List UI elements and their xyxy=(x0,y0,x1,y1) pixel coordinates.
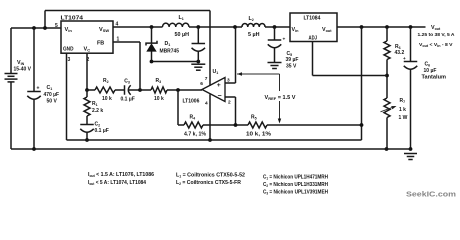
svg-text:+: + xyxy=(403,56,406,61)
ground below C4 xyxy=(191,63,205,65)
diode D1 MBR745 schottky xyxy=(146,41,157,46)
node D1 anode rail junction xyxy=(150,60,154,64)
svg-text:R3: R3 xyxy=(156,78,162,84)
svg-text:L1 = Coiltronics CTX50-5-52: L1 = Coiltronics CTX50-5-52 xyxy=(176,173,245,179)
svg-text:L2: L2 xyxy=(249,16,254,22)
wire top rail horizontal xyxy=(45,10,210,12)
svg-text:C1 = Nichicon UPL1H471MRH: C1 = Nichicon UPL1H471MRH xyxy=(263,175,328,181)
svg-text:Iout < 1.5 A: LT1076, LT1086: Iout < 1.5 A: LT1076, LT1086 xyxy=(88,172,154,178)
svg-text:VSW: VSW xyxy=(99,27,109,33)
wire R6 top lead xyxy=(386,27,388,41)
svg-text:10 k: 10 k xyxy=(102,96,112,102)
svg-text:SeekIC.com: SeekIC.com xyxy=(406,190,456,199)
svg-text:C2 = Nichicon UPL1H331MRH: C2 = Nichicon UPL1H331MRH xyxy=(263,182,328,188)
svg-text:15-40 V: 15-40 V xyxy=(14,67,32,73)
node C1 bottom junction xyxy=(32,147,36,151)
arrowhead R7 wiper xyxy=(391,106,396,109)
wire L2 to LT1084 Vin xyxy=(265,26,290,28)
wire R3 to op-amp output xyxy=(167,89,202,91)
wire gnd rail corner xyxy=(67,139,362,141)
svg-text:Vout < Vin - 8 V: Vout < Vin - 8 V xyxy=(419,42,453,48)
wire VSW to L1 xyxy=(113,26,163,28)
node C6 Vout junction xyxy=(409,25,413,29)
svg-text:L2 = Coiltronics CTX5-5-FR: L2 = Coiltronics CTX5-5-FR xyxy=(176,180,241,186)
svg-text:1.25 to 38 V, 5 A: 1.25 to 38 V, 5 A xyxy=(418,32,455,38)
wire R2 to C3 xyxy=(115,89,125,91)
capacitor C4 filter xyxy=(192,43,206,45)
svg-text:0.1 µF: 0.1 µF xyxy=(95,128,109,134)
node R7 bottom junction xyxy=(385,147,389,151)
svg-text:VIN: VIN xyxy=(17,60,25,66)
svg-text:VC: VC xyxy=(84,47,91,53)
svg-text:5: 5 xyxy=(55,23,58,29)
svg-text:U1: U1 xyxy=(213,69,219,75)
svg-text:R2: R2 xyxy=(103,78,109,84)
wire VREF annotation vertical lower xyxy=(279,101,281,119)
wire R4 tap vertical xyxy=(177,90,179,125)
svg-text:MBR745: MBR745 xyxy=(160,48,180,54)
svg-text:ADJ: ADJ xyxy=(309,35,318,41)
node VC compensation junction xyxy=(85,88,89,92)
resistor R1 2.2k xyxy=(84,97,90,116)
svg-text:50 µH: 50 µH xyxy=(175,32,190,38)
svg-text:R1: R1 xyxy=(92,101,98,107)
svg-text:Vin: Vin xyxy=(292,27,300,33)
wire bottom rail xyxy=(11,148,411,150)
capacitor C2 0.1uF xyxy=(80,124,94,126)
resistor R2 10k xyxy=(95,87,115,93)
svg-text:4: 4 xyxy=(205,101,208,107)
wire Vin source vertical upper xyxy=(10,28,12,73)
svg-text:R7: R7 xyxy=(400,98,406,104)
capacitor C6 10uF tantalum xyxy=(404,61,418,63)
wire VREF annotation vertical upper xyxy=(279,74,281,91)
resistor R5 10k 1% xyxy=(248,122,267,128)
node C1 top junction xyxy=(32,26,36,30)
svg-text:10 k, 1%: 10 k, 1% xyxy=(246,132,272,138)
svg-text:C3 = Nichicon UPL1V391MEH: C3 = Nichicon UPL1V391MEH xyxy=(263,190,328,196)
wire top rail vertical from Vin node xyxy=(44,11,46,29)
wire D1 cathode lead xyxy=(151,27,153,43)
svg-text:4.7 k, 1%: 4.7 k, 1% xyxy=(184,132,207,138)
wire GND pin vertical xyxy=(66,53,68,140)
wire C6 upper lead xyxy=(410,27,412,62)
svg-text:R4: R4 xyxy=(190,115,196,121)
node op-amp output R4 junction xyxy=(176,88,180,92)
svg-text:+: + xyxy=(217,82,221,89)
wire C1 lower lead xyxy=(33,99,35,149)
svg-text:35 V: 35 V xyxy=(286,63,297,69)
wire ADJ horizontal xyxy=(313,75,388,77)
wire VC node to R2 xyxy=(87,89,95,91)
node FB-C3-R3 junction xyxy=(138,88,142,92)
wire Vout sense vertical xyxy=(361,27,363,140)
node C4 bottom rail junction xyxy=(196,60,200,64)
wire Vin source vertical lower xyxy=(10,82,12,149)
svg-text:FB: FB xyxy=(97,40,104,46)
wire op-amp pin2 jog xyxy=(225,96,236,98)
svg-text:L1: L1 xyxy=(179,15,184,21)
arrowhead VREF left xyxy=(237,72,242,75)
wire pin2 down to feedback node xyxy=(235,97,237,125)
wire op-amp pin3 jog xyxy=(225,82,236,84)
svg-text:39 µF: 39 µF xyxy=(286,57,299,63)
node C5 top junction xyxy=(273,25,277,29)
svg-text:R5: R5 xyxy=(251,115,257,121)
node ADJ junction xyxy=(385,74,389,78)
svg-text:10 k: 10 k xyxy=(154,96,164,102)
wire R1 to C2 xyxy=(86,116,88,125)
wire sense vertical to op-amp pin3 xyxy=(235,27,237,83)
node C2 gnd junction xyxy=(85,138,89,142)
svg-text:C3: C3 xyxy=(124,78,130,84)
node R6 top junction xyxy=(385,25,389,29)
op-amp U1 LT1006 triangle xyxy=(202,78,225,102)
wire R4 to pin2 node xyxy=(203,124,248,126)
node R4-R5-pin2 junction xyxy=(234,123,238,127)
wire FB node to R3 xyxy=(140,89,151,91)
svg-text:6: 6 xyxy=(200,81,203,87)
svg-text:Vout: Vout xyxy=(431,25,441,31)
svg-text:0.1 µF: 0.1 µF xyxy=(121,96,135,102)
resistor R6 43.2 xyxy=(384,41,390,60)
svg-text:Vin: Vin xyxy=(65,27,73,33)
svg-text:C6: C6 xyxy=(425,62,431,68)
ground below C5 xyxy=(268,62,282,64)
capacitor C5 39uF 35V xyxy=(268,39,282,41)
wire C6 lower lead xyxy=(410,69,412,149)
wire FB horizontal xyxy=(113,41,140,43)
svg-text:LT1074: LT1074 xyxy=(61,15,84,21)
inductor L1 50uH xyxy=(162,23,188,27)
wire Vin input horizontal xyxy=(11,27,61,29)
wire VREF annotation horizontal xyxy=(237,73,280,75)
resistor R4 4.7k 1% xyxy=(184,122,203,128)
wire C4 upper lead xyxy=(197,27,199,44)
svg-text:2: 2 xyxy=(228,100,231,106)
wire R6 bottom to ADJ node xyxy=(386,60,388,99)
node Vin-toprail junction xyxy=(43,26,47,30)
svg-text:Vout: Vout xyxy=(322,27,332,33)
wire VC to R1 xyxy=(86,90,88,97)
wire R7 wiper shaft xyxy=(381,107,395,112)
ground main at bottom right xyxy=(404,153,417,155)
svg-text:Iout < 5 A: LT1074, LT1084: Iout < 5 A: LT1074, LT1084 xyxy=(88,180,146,186)
node C6 bottom junction xyxy=(409,147,413,151)
wire C5 upper lead xyxy=(274,27,276,40)
svg-text:2.2 k: 2.2 k xyxy=(92,108,103,114)
op-amp U? LT1074 switching regulator box xyxy=(61,21,113,53)
wire C3 to FB node xyxy=(129,89,141,91)
svg-text:C2: C2 xyxy=(95,122,101,128)
resistor R3 10k xyxy=(151,87,167,93)
svg-text:D1: D1 xyxy=(165,41,171,47)
svg-text:Tantalum: Tantalum xyxy=(422,75,447,81)
wire C5 lower lead xyxy=(274,48,276,63)
node sense vertical top junction xyxy=(360,25,364,29)
wire D1 anode lead xyxy=(151,52,153,62)
wire op-amp pin7 supply xyxy=(209,11,211,86)
battery VIN 15-40 V source xyxy=(5,73,18,75)
svg-text:1 W: 1 W xyxy=(399,115,408,121)
svg-text:+: + xyxy=(37,86,40,92)
svg-text:10 µF: 10 µF xyxy=(424,68,437,74)
wire R5 to Vout sense xyxy=(267,124,362,126)
svg-text:3: 3 xyxy=(68,57,71,63)
resistor R7 1k 1W rheostat xyxy=(384,98,390,118)
wire C4 lower lead xyxy=(197,51,199,61)
inductor L2 5uH xyxy=(242,23,265,27)
svg-text:C1: C1 xyxy=(47,85,53,91)
wire C1 upper lead xyxy=(33,28,35,92)
wire FB vertical xyxy=(139,42,141,90)
svg-text:7: 7 xyxy=(205,76,208,82)
svg-text:43.2: 43.2 xyxy=(395,50,405,56)
node D1 cathode junction xyxy=(150,25,154,29)
svg-text:LT1084: LT1084 xyxy=(304,16,321,22)
wire ADJ vertical xyxy=(312,42,314,76)
svg-text:GND: GND xyxy=(63,47,74,53)
wire VC pin vertical xyxy=(86,53,88,90)
wire R4 left lead xyxy=(178,124,184,126)
capacitor C3 0.1uF xyxy=(124,85,126,95)
wire R7 bottom lead xyxy=(386,118,388,150)
node L2 input sense junction xyxy=(233,25,237,29)
arrowhead VREF down xyxy=(278,119,281,124)
svg-text:1 k: 1 k xyxy=(399,107,406,113)
wire L1 to L2 xyxy=(189,26,242,28)
node feedback sense junction xyxy=(360,123,364,127)
capacitor C1 470uF 50V xyxy=(27,91,41,93)
svg-text:5 µH: 5 µH xyxy=(248,32,260,38)
wire C2 to gnd rail xyxy=(86,132,88,140)
node gnd rail C2 junction dup xyxy=(86,139,88,141)
wire op-amp pin4 supply xyxy=(209,94,211,140)
svg-text:50 V: 50 V xyxy=(47,99,58,105)
svg-text:VREF = 1.5 V: VREF = 1.5 V xyxy=(265,95,297,101)
wire Vout rail xyxy=(337,26,426,28)
svg-text:C5: C5 xyxy=(287,51,293,57)
op-amp U? LT1084 linear regulator box xyxy=(290,13,337,42)
svg-text:+: + xyxy=(283,38,286,43)
node pin4 gnd junction xyxy=(208,138,212,142)
svg-text:−: − xyxy=(218,93,222,100)
svg-text:3: 3 xyxy=(227,78,230,84)
svg-text:LT1006: LT1006 xyxy=(183,99,200,105)
wire D1-C4 ground rail xyxy=(152,61,199,63)
svg-text:470 µF: 470 µF xyxy=(44,92,60,98)
node C4 top junction xyxy=(196,25,200,29)
